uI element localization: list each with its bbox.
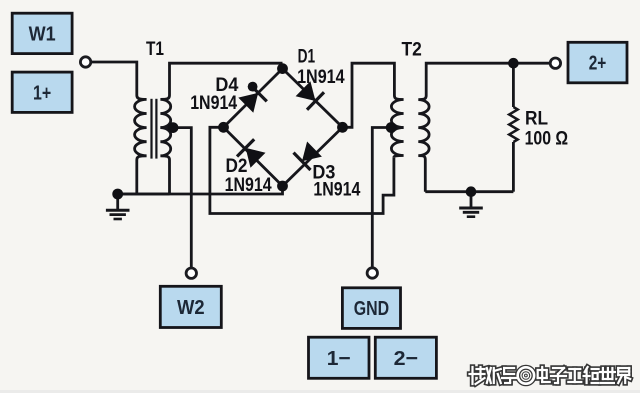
svg-text:RL: RL [525, 109, 548, 130]
svg-text:1−: 1− [327, 347, 351, 370]
svg-text:D1: D1 [298, 46, 316, 67]
svg-text:1N914: 1N914 [313, 180, 360, 201]
svg-text:T1: T1 [146, 39, 164, 60]
svg-text:1N914: 1N914 [225, 175, 272, 196]
svg-text:D2: D2 [226, 156, 248, 177]
svg-text:1N914: 1N914 [190, 93, 237, 114]
svg-text:T2: T2 [402, 39, 422, 60]
svg-text:2+: 2+ [589, 52, 607, 75]
svg-text:GND: GND [354, 297, 389, 320]
svg-text:2−: 2− [394, 347, 419, 370]
svg-text:1+: 1+ [33, 81, 51, 104]
svg-text:W2: W2 [177, 296, 205, 319]
svg-text:W1: W1 [29, 23, 56, 46]
svg-text:100 Ω: 100 Ω [525, 129, 569, 150]
svg-text:1N914: 1N914 [297, 67, 345, 88]
